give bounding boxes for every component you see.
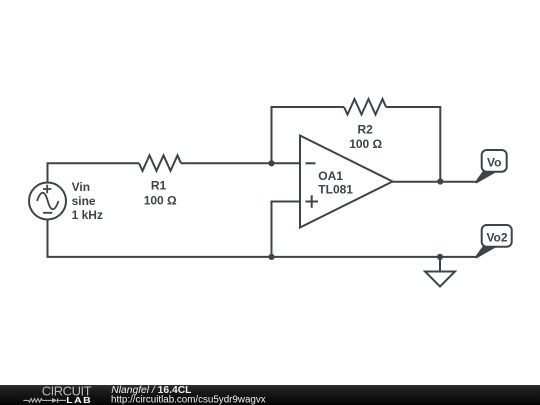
svg-text:http://circuitlab.com/csu5ydr9: http://circuitlab.com/csu5ydr9wagvx — [111, 394, 266, 405]
svg-text:sine: sine — [72, 194, 96, 208]
svg-text:LAB: LAB — [66, 395, 92, 405]
svg-text:Vo2: Vo2 — [486, 231, 507, 245]
svg-text:100 Ω: 100 Ω — [144, 193, 177, 207]
svg-text:R1: R1 — [151, 179, 167, 193]
svg-text:Vin: Vin — [72, 180, 90, 194]
svg-text:100 Ω: 100 Ω — [349, 137, 382, 151]
svg-text:OA1: OA1 — [318, 169, 343, 183]
svg-text:1 kHz: 1 kHz — [72, 208, 103, 222]
svg-text:Vo: Vo — [487, 156, 501, 170]
svg-text:TL081: TL081 — [318, 182, 353, 196]
svg-text:R2: R2 — [358, 122, 374, 136]
